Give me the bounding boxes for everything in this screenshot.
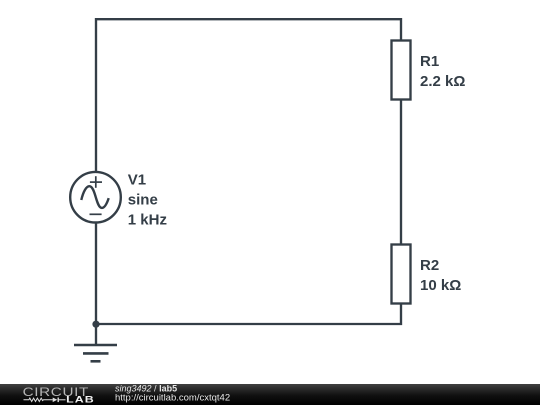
wire from R1 bottom to R2 top: [400, 100, 402, 245]
svg-text:sine: sine: [128, 191, 158, 208]
label R2 value: [420, 257, 461, 294]
resistor R1: [392, 41, 411, 100]
wire top from V1 to R1: [96, 19, 401, 173]
footer bar: [0, 384, 540, 405]
svg-text:R2: R2: [420, 257, 439, 274]
resistor R2: [392, 245, 411, 304]
wire bottom from R2 to ground node: [96, 304, 401, 325]
svg-text:R1: R1: [420, 53, 439, 70]
node junction dot: [92, 321, 99, 328]
svg-text:2.2 kΩ: 2.2 kΩ: [420, 73, 465, 90]
label R1 value: [420, 53, 465, 90]
voltage source V1: [70, 172, 121, 223]
wire from V1 bottom to ground: [95, 222, 97, 345]
CircuitLab logo resistor zigzag and diode: [24, 398, 66, 401]
ground: [74, 345, 117, 361]
svg-text:10 kΩ: 10 kΩ: [420, 277, 461, 294]
svg-text:V1: V1: [128, 171, 146, 188]
svg-text:1 kHz: 1 kHz: [128, 211, 167, 228]
svg-text:http://circuitlab.com/cxtqt42: http://circuitlab.com/cxtqt42: [115, 393, 230, 404]
svg-text:LAB: LAB: [66, 395, 95, 405]
label V1 value: [128, 171, 167, 228]
